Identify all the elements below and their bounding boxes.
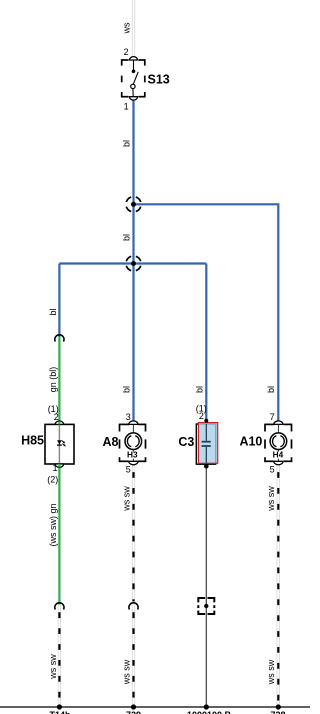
svg-text:5: 5 (270, 465, 275, 475)
svg-text:ws sw: ws sw (266, 486, 276, 512)
svg-text:bl: bl (121, 386, 131, 393)
svg-text:H85: H85 (21, 434, 44, 448)
svg-text:729: 729 (126, 710, 141, 714)
svg-text:bl: bl (195, 386, 205, 393)
svg-text:H3: H3 (127, 450, 138, 460)
svg-text:7: 7 (270, 412, 275, 422)
svg-text:ws: ws (121, 22, 131, 34)
svg-text:(2): (2) (47, 475, 58, 485)
svg-text:3: 3 (126, 412, 131, 422)
svg-text:728: 728 (270, 710, 285, 714)
svg-text:S13: S13 (148, 72, 170, 86)
svg-text:bl: bl (266, 386, 276, 393)
svg-text:2: 2 (199, 411, 204, 421)
svg-text:H4: H4 (273, 450, 284, 460)
svg-text:ws sw: ws sw (121, 486, 131, 512)
svg-text:ws sw: ws sw (121, 659, 131, 685)
svg-text:bl: bl (121, 140, 131, 147)
svg-text:A10: A10 (239, 435, 262, 449)
svg-text:5: 5 (126, 465, 131, 475)
svg-text:ws sw: ws sw (266, 659, 276, 685)
svg-text:(ws sw) gn: (ws sw) gn (48, 503, 58, 546)
svg-text:T14b: T14b (49, 710, 71, 714)
svg-text:bl: bl (121, 234, 131, 241)
svg-text:1: 1 (52, 463, 57, 473)
svg-text:2: 2 (54, 412, 59, 422)
svg-text:bl: bl (48, 308, 58, 315)
svg-text:A8: A8 (103, 435, 119, 449)
svg-text:C3: C3 (178, 435, 194, 449)
svg-text:1: 1 (124, 101, 129, 111)
svg-text:ws sw: ws sw (48, 654, 58, 680)
svg-text:gn (bl): gn (bl) (48, 367, 58, 393)
svg-text:1000100 B: 1000100 B (187, 710, 232, 714)
svg-text:2: 2 (124, 47, 129, 57)
